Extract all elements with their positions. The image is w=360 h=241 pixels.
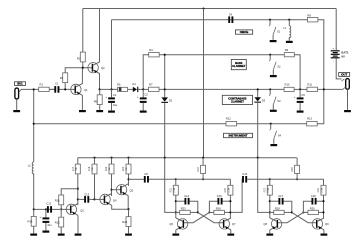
wire cross diagonal 1 — [198, 212, 224, 222]
ground Q7 — [227, 234, 234, 236]
transistor Q3 — [66, 204, 76, 214]
svg-text:C18: C18 — [311, 194, 316, 198]
resistor R15 — [60, 209, 62, 217]
node R14 — [33, 208, 35, 210]
capacitor C15 — [209, 201, 217, 212]
resistor R28 — [270, 211, 274, 213]
resistor R7 — [149, 87, 160, 91]
ground R6 — [96, 110, 103, 112]
wire oscillator coupling row — [129, 178, 144, 180]
node Q5 collector out — [127, 178, 129, 180]
ground Q6 — [172, 234, 179, 236]
wire cross diagonal 2 — [277, 212, 303, 222]
wire R11 to output jack — [317, 88, 343, 90]
svg-text:R27: R27 — [264, 187, 267, 192]
node C5 junction — [142, 88, 144, 90]
wire R3 top to node B — [65, 68, 92, 73]
svg-text:C16: C16 — [242, 172, 247, 176]
wire R9 right riser down to C6 node — [294, 55, 300, 90]
node S1 — [269, 19, 271, 21]
node D2 on audio rail — [164, 88, 166, 90]
wire select line to block2 collector — [165, 158, 176, 213]
trimmer R5 — [118, 87, 128, 91]
capacitor C12 — [47, 206, 49, 213]
resistor R12 — [226, 122, 237, 126]
svg-text:R12: R12 — [226, 117, 231, 121]
node R19 bottom — [202, 178, 204, 180]
node R21/C cap — [175, 200, 177, 202]
capacitor C5 electrolytic — [142, 89, 144, 97]
battery BAT1 — [331, 50, 340, 51]
wire Q4 emitter corner — [112, 205, 129, 209]
inductor L1 — [288, 20, 290, 26]
wire Q6 emitter — [175, 230, 177, 234]
svg-text:BU1: BU1 — [17, 82, 23, 86]
diode D3 — [254, 97, 261, 101]
svg-text:C5: C5 — [144, 93, 148, 97]
node Q3 collector/R16 — [77, 188, 79, 190]
wire R2 stub — [82, 61, 84, 68]
node C6 — [299, 88, 301, 90]
node S2 — [269, 54, 271, 56]
svg-text:R23: R23 — [181, 206, 186, 210]
wire output jack sleeve — [347, 89, 349, 110]
wire instrument rail right part — [237, 123, 307, 125]
wire vertical bus x=203 (top rail to lower rail) — [203, 9, 205, 158]
node rail/R18 — [93, 157, 95, 159]
svg-text:R30: R30 — [310, 206, 315, 210]
inductor L2 — [32, 162, 33, 174]
svg-text:Q1: Q1 — [84, 88, 88, 92]
ground R15 — [58, 234, 65, 236]
svg-text:CLARINET: CLARINET — [231, 99, 245, 103]
connector label box BU1 — [15, 82, 26, 86]
node R27/C cap — [269, 200, 271, 202]
wire D2 line lower — [164, 103, 166, 158]
svg-text:R9: R9 — [285, 48, 289, 52]
wire input row y=209 — [34, 208, 72, 210]
node C13/R18/Q4 base — [93, 198, 95, 200]
svg-text:Q7: Q7 — [232, 222, 236, 226]
node rail/R22 — [127, 157, 129, 159]
resistor R20 — [111, 158, 113, 164]
wire corner riser x=111 down to audio rail — [111, 20, 113, 90]
svg-text:C4: C4 — [229, 13, 233, 17]
svg-text:INSTRUMENT: INSTRUMENT — [229, 134, 248, 138]
resistor R1 — [39, 87, 50, 91]
svg-text:+: + — [105, 95, 107, 99]
transistor Q7 — [219, 219, 229, 229]
svg-text:100k: 100k — [174, 187, 176, 193]
svg-text:R10: R10 — [285, 83, 290, 87]
node R24/res — [229, 211, 231, 213]
resistor R11 — [307, 87, 318, 91]
wire audio rail right of R7 — [159, 88, 284, 90]
svg-text:C14: C14 — [184, 194, 189, 198]
resistor R30 — [303, 211, 308, 213]
svg-text:R13: R13 — [307, 117, 312, 121]
ground Q8 — [266, 234, 273, 236]
transistor Q4 — [100, 194, 110, 204]
node cross left — [197, 211, 199, 213]
wire block2 output riser — [231, 179, 242, 212]
wire D2 select line x=164.2 — [164, 55, 166, 98]
svg-text:100k: 100k — [228, 187, 230, 193]
wire Q7 emitter — [230, 230, 232, 234]
wire oscillator supply rail y=157.2 — [78, 157, 297, 159]
connector output jack — [346, 79, 350, 90]
resistor R26 — [209, 211, 214, 213]
wire Q2 collector riser — [99, 9, 101, 62]
node Q2 emitter / R6 — [98, 88, 100, 90]
resistor R2 — [80, 52, 85, 62]
resistor R16 — [59, 195, 64, 205]
svg-text:R24: R24 — [224, 187, 227, 192]
svg-text:100k: 100k — [268, 187, 270, 193]
svg-text:R19: R19 — [197, 167, 200, 172]
ground Q1 emitter — [79, 110, 86, 112]
wire BU1 sleeve to ground — [16, 99, 18, 110]
node emitter row / R-bias — [127, 208, 129, 210]
node R15/R16 — [60, 208, 62, 210]
svg-text:R17: R17 — [72, 166, 75, 171]
capacitor C14 — [176, 200, 185, 202]
wire R5 to D1 — [128, 88, 133, 90]
wire C1 to Q1 base — [59, 88, 76, 90]
svg-text:S4: S4 — [278, 134, 282, 138]
svg-text:OBOE: OBOE — [240, 30, 249, 34]
connector BU1 input jack — [15, 88, 19, 99]
wire node A to R3 top wire — [64, 82, 66, 89]
resistor R10 — [284, 87, 294, 91]
node rail/D3 line — [257, 157, 259, 159]
node jack junction — [33, 88, 35, 90]
svg-text:Q4: Q4 — [113, 199, 117, 203]
node A (C1/R3/Q1 base) — [64, 88, 66, 90]
node rail/R19 — [202, 157, 204, 159]
resistor R14 — [33, 209, 35, 216]
node cross right — [208, 211, 210, 213]
svg-text:C6: C6 — [301, 93, 305, 97]
svg-text:+: + — [40, 215, 42, 219]
ground output jack — [344, 110, 351, 112]
svg-text:C17: C17 — [278, 194, 283, 198]
label box BASS CLARINET — [231, 60, 246, 70]
svg-text:Q3: Q3 — [80, 209, 84, 213]
label box OBOE — [235, 30, 252, 34]
svg-text:R24: R24 — [122, 220, 127, 224]
resistor R27 — [269, 179, 271, 185]
wire R8 to right corner and down to R13 — [317, 20, 323, 124]
capacitor C10 electrolytic — [45, 209, 47, 217]
resistor R24a bias — [128, 209, 130, 217]
wire riser to R2 from top rail — [82, 9, 84, 53]
svg-text:Q2: Q2 — [101, 66, 105, 70]
resistor R21 — [175, 179, 177, 185]
svg-text:R3: R3 — [60, 76, 64, 80]
wire cross diagonal 1 — [292, 212, 317, 222]
svg-text:9V: 9V — [341, 54, 345, 58]
transistor Q9 — [312, 219, 322, 229]
capacitor C6 electrolytic — [299, 89, 301, 97]
svg-text:100k: 100k — [322, 187, 324, 193]
ground BU1 — [13, 110, 20, 112]
node R24/cap — [229, 200, 231, 202]
diode D1 — [133, 87, 137, 92]
resistor R31 — [323, 179, 325, 185]
svg-text:C13: C13 — [84, 192, 89, 196]
svg-text:Q5: Q5 — [130, 188, 134, 192]
svg-text:R11: R11 — [307, 83, 312, 87]
wire D3 select line x=257.2 — [257, 89, 259, 97]
resistor R4 — [149, 53, 160, 57]
ground Q3 — [75, 234, 82, 236]
ground Q9 — [321, 234, 328, 236]
svg-text:Q8: Q8 — [263, 222, 267, 226]
wire Q8 emitter — [269, 230, 271, 234]
node R31/res — [322, 211, 324, 213]
capacitor C8 — [144, 176, 146, 183]
svg-text:+: + — [332, 47, 334, 51]
node D3 on audio rail — [257, 88, 259, 90]
svg-text:10u: 10u — [113, 103, 118, 107]
resistor R3 — [63, 73, 68, 83]
svg-text:+: + — [137, 95, 139, 99]
transistor Q1 — [71, 84, 81, 94]
node R31/cap — [322, 200, 324, 202]
wire block2 R24 feed corner — [176, 178, 231, 180]
resistor R29 feed — [296, 158, 298, 166]
svg-text:R29: R29 — [291, 167, 294, 172]
node R27 top — [269, 178, 271, 180]
resistor R13 — [307, 122, 318, 126]
svg-text:R21: R21 — [170, 187, 173, 192]
svg-text:R5: R5 — [117, 83, 121, 87]
svg-text:S3: S3 — [277, 99, 281, 103]
svg-text:R14: R14 — [28, 220, 33, 224]
svg-text:L1: L1 — [284, 26, 287, 30]
switch S4 — [270, 124, 272, 129]
wire R16 feedback — [61, 189, 78, 195]
ground bias resistor — [125, 234, 132, 236]
wire R10 to R11 — [294, 88, 307, 90]
resistor R17 — [77, 158, 79, 164]
node B (R2/R3/Q1 coll/Q2 base) — [82, 67, 84, 69]
resistor R22 — [128, 158, 130, 164]
diode D2 — [161, 97, 168, 101]
wire Q1 emitter to ground — [81, 95, 83, 110]
resistor R23 — [176, 211, 180, 213]
node rail/D2 line — [164, 157, 166, 159]
svg-text:+: + — [294, 95, 296, 99]
node R21/R cross — [175, 211, 177, 213]
resistor R9 — [284, 53, 294, 57]
transistor Q2 — [88, 62, 98, 72]
resistor R24 — [229, 179, 231, 185]
svg-text:R16: R16 — [55, 198, 60, 202]
svg-text:R15: R15 — [55, 220, 60, 224]
ground L1 — [286, 41, 293, 43]
svg-text:S2: S2 — [277, 65, 281, 69]
wire block3 R31 feed corner — [270, 178, 324, 180]
wire input line down from jack node — [33, 89, 35, 161]
svg-text:10u: 10u — [47, 223, 52, 227]
svg-text:C1: C1 — [55, 82, 59, 86]
svg-text:C12: C12 — [46, 202, 51, 206]
svg-text:Q9: Q9 — [325, 222, 329, 226]
wire rail y=54.2 continued — [159, 54, 284, 56]
svg-text:D1: D1 — [132, 82, 136, 86]
svg-text:R1: R1 — [40, 83, 44, 87]
label box OUT — [339, 73, 350, 77]
wire rail y=54.2 (bass clarinet net) — [143, 55, 149, 90]
resistor R18 — [94, 158, 96, 164]
svg-text:R18: R18 — [88, 166, 91, 171]
capacitor C4 — [228, 16, 230, 23]
label box INSTRUMENT — [224, 133, 253, 137]
wire battery minus to jack ring — [336, 58, 341, 79]
capacitor C17 — [270, 200, 279, 202]
transistor Q8 — [271, 219, 281, 229]
svg-text:R31: R31 — [317, 187, 320, 192]
node R29 bottom — [296, 178, 298, 180]
svg-text:R26: R26 — [216, 206, 221, 210]
node S3 — [269, 88, 271, 90]
node Q5 base/R20 — [110, 189, 112, 191]
wire main audio rail left (jack to C1) — [21, 88, 54, 90]
capacitor C2 electrolytic — [111, 89, 113, 97]
wire audio rail middle — [100, 88, 118, 90]
svg-text:R8: R8 — [307, 14, 311, 18]
resistor R6 — [97, 95, 102, 105]
svg-text:S1: S1 — [277, 30, 281, 34]
switch S2 — [269, 55, 271, 60]
wire Q4 base — [95, 198, 105, 200]
svg-text:R20: R20 — [105, 166, 108, 171]
switch S1 — [269, 20, 271, 25]
wire Q9 emitter — [323, 230, 325, 234]
wire battery branch right vertical — [335, 9, 337, 51]
svg-text:C2: C2 — [113, 93, 117, 97]
ground R14 — [30, 234, 37, 236]
capacitor C1 — [54, 86, 56, 93]
node rail/R20 — [110, 157, 112, 159]
node cross left — [291, 211, 293, 213]
svg-text:R6: R6 — [94, 100, 98, 104]
svg-text:CLARINET: CLARINET — [232, 64, 246, 68]
transistor Q5 — [116, 185, 126, 195]
capacitor C13 — [78, 198, 84, 200]
wire Q2 emitter riser to audio rail — [99, 73, 101, 89]
svg-text:R28: R28 — [275, 206, 280, 210]
svg-text:D3: D3 — [262, 98, 266, 102]
transistor Q6 — [177, 219, 187, 229]
svg-text:R2: R2 — [77, 56, 81, 60]
capacitor C16 — [242, 176, 244, 183]
node cross right — [302, 211, 304, 213]
node S4 — [270, 123, 272, 125]
wire Q5 emitter riser — [127, 196, 129, 210]
switch S3 — [269, 89, 271, 94]
wire C8 to block2 — [149, 178, 176, 180]
node L1 — [288, 19, 290, 21]
node R4 right / D2 line — [164, 54, 166, 56]
resistor R19 feed — [202, 158, 204, 166]
node instrument rail tap — [33, 123, 35, 125]
svg-text:R7: R7 — [149, 83, 153, 87]
node C10 — [45, 208, 47, 210]
node junction top rail x203 — [202, 7, 204, 9]
wire D3 line lower — [257, 103, 259, 158]
wire Q5 base — [112, 189, 122, 191]
svg-text:R4: R4 — [149, 48, 153, 52]
svg-text:OUT: OUT — [341, 72, 347, 76]
wire select line to block3 collector — [258, 158, 270, 213]
wire second rail y=19.2 — [112, 19, 308, 21]
node R21 top — [175, 178, 177, 180]
node output tee — [323, 88, 325, 90]
wire top +V rail — [83, 8, 336, 10]
resistor R8 — [307, 18, 318, 22]
node C2 — [110, 88, 112, 90]
wire cross diagonal 2 — [183, 212, 209, 222]
wire Q3 emitter — [77, 215, 79, 233]
svg-text:D2: D2 — [169, 99, 173, 103]
svg-text:Q6: Q6 — [169, 222, 173, 226]
wire input line below L2 — [33, 173, 35, 209]
svg-text:R22: R22 — [122, 166, 125, 171]
wire D1 to node C5 — [138, 88, 148, 90]
node Q3 coll/C13 — [77, 198, 79, 200]
wire R1 to C1 — [49, 88, 55, 90]
svg-text:-: - — [333, 60, 334, 64]
capacitor C18 — [303, 201, 311, 212]
wire instrument rail y=123 — [34, 123, 226, 125]
svg-text:C15: C15 — [217, 194, 222, 198]
svg-text:L2: L2 — [28, 164, 31, 168]
wire C16 to block3 — [247, 178, 270, 180]
svg-text:C8: C8 — [144, 172, 148, 176]
label box CONTRABASS CLARINET — [222, 95, 252, 104]
wire Q1 collector riser — [81, 68, 83, 84]
node R27/R cross — [269, 211, 271, 213]
